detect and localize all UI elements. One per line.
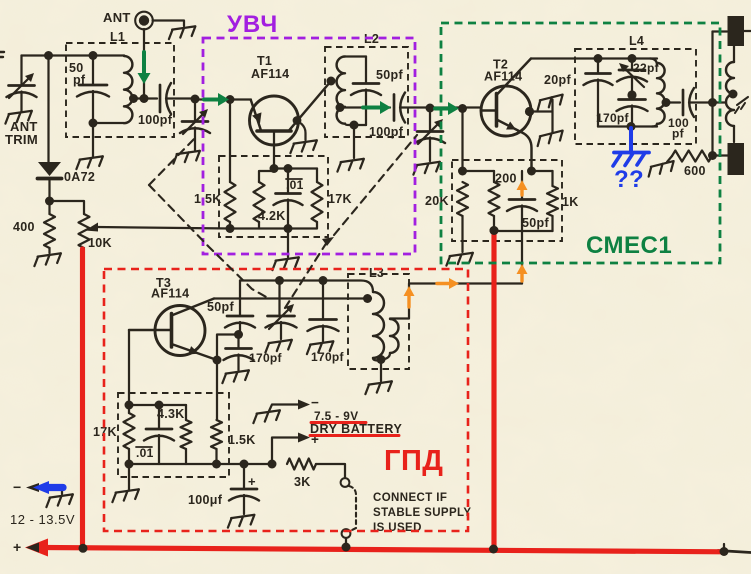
svg-text:STABLE SUPPLY: STABLE SUPPLY	[373, 507, 472, 519]
label plus terminal	[13, 539, 21, 555]
svg-text:20K: 20K	[425, 194, 449, 208]
label question marks blue	[614, 166, 644, 193]
orange arrow injection 2	[437, 278, 459, 289]
label UVCH	[227, 11, 278, 38]
wire L1 tap to coupling cap	[134, 97, 158, 99]
inductor L1 coil	[124, 56, 132, 124]
T1 labels	[251, 54, 289, 81]
svg-text:400: 400	[13, 220, 35, 234]
svg-text:+: +	[248, 474, 256, 489]
capacitor 50pf in L1	[77, 56, 109, 124]
node tank 170pf top	[319, 276, 328, 285]
blue arrow minus supply	[33, 481, 63, 494]
T2 labels	[484, 58, 522, 84]
svg-text:ANT: ANT	[103, 10, 131, 25]
blue wire L4 bottom	[629, 128, 633, 153]
node rail 600 junction	[708, 151, 717, 160]
orange arrow injection 1	[404, 286, 415, 307]
black arrow plus placeholder	[0, 0, 1, 1]
switch terminal upper	[341, 478, 350, 487]
svg-text:12 - 13.5V: 12 - 13.5V	[10, 512, 75, 527]
L4 label	[629, 34, 644, 48]
L1 label	[110, 30, 125, 44]
wire base junction down to 20K	[461, 109, 463, 172]
T2 base lead	[481, 109, 497, 111]
dashed box T1 bias	[219, 156, 328, 237]
wire injection path	[390, 284, 522, 319]
capacitor 50pf L2	[351, 57, 381, 126]
ANT TRIM label	[5, 119, 38, 147]
node L2 tap	[336, 103, 345, 112]
antenna connector J1	[135, 12, 153, 30]
resistor 1K	[551, 171, 553, 186]
ground below L2	[336, 159, 365, 172]
node bias2 bottom-left	[125, 460, 134, 469]
wire L2 bottom rail	[345, 124, 366, 126]
resistor 17K T1	[316, 169, 318, 183]
ground minus entry	[45, 494, 74, 507]
wire L1 bottom rail	[93, 122, 124, 124]
svg-text:170pf: 170pf	[311, 350, 345, 364]
wire rail to IF top	[713, 30, 728, 32]
T3 base lead	[129, 329, 172, 331]
transistor T3 circle	[155, 306, 205, 356]
wire diode branch	[47, 56, 49, 163]
ground T2 shield lower	[535, 131, 564, 147]
wire tank top rail	[240, 281, 373, 293]
wire base rail	[274, 167, 317, 169]
wire IF top out	[744, 30, 751, 32]
ground below L3	[364, 381, 393, 394]
node divider tap	[234, 330, 243, 339]
wire bias to ground	[287, 229, 289, 258]
label GPD	[384, 445, 443, 477]
wire switch to bottom rail	[345, 538, 347, 546]
dashed switch link	[349, 486, 356, 531]
node bottom rail left	[79, 544, 88, 553]
svg-text:100μf: 100μf	[188, 493, 223, 507]
T2 collector lead	[497, 59, 532, 96]
T1 base bar	[257, 129, 291, 133]
ground below 20K	[445, 253, 474, 266]
wire 1.5K bottom	[229, 222, 231, 229]
ground below 170pf tank	[306, 341, 335, 354]
T3 emitter lead with arrow	[172, 344, 218, 360]
svg-text:50pf: 50pf	[522, 216, 549, 230]
svg-text:3K: 3K	[294, 475, 311, 489]
node 22pf-170pf junction	[627, 90, 636, 99]
svg-text:L4: L4	[629, 34, 644, 48]
svg-text:DRY BATTERY: DRY BATTERY	[310, 422, 402, 436]
resistor 200	[493, 171, 495, 182]
node 20pf branch top	[594, 54, 603, 63]
red power line vertical right	[491, 231, 496, 550]
wire L4 bottom rail	[598, 125, 657, 127]
T1 shield lead to ground	[293, 116, 302, 125]
ground below L1	[75, 156, 104, 169]
T3 labels	[151, 276, 189, 301]
T1 base lead down	[273, 132, 275, 169]
IF transformer core bar bottom	[728, 143, 745, 175]
svg-text:AF114: AF114	[484, 70, 522, 84]
label 7.5-9V	[314, 409, 359, 423]
inductor L3 primary	[373, 292, 384, 361]
junction 50pf branch	[89, 51, 98, 60]
wire rail to IF bottom	[713, 154, 728, 156]
wire 20K to ground	[461, 216, 463, 252]
node T1 base rail	[270, 164, 279, 173]
wire top-left rail	[22, 54, 125, 56]
svg-text:7.5 - 9V: 7.5 - 9V	[314, 409, 359, 423]
ANT label	[103, 10, 131, 25]
svg-text:AF114: AF114	[151, 287, 189, 301]
T2 shield lead	[525, 107, 534, 116]
node bottom rail right	[720, 547, 729, 556]
gang link dashes upper right	[334, 135, 417, 235]
wire battery plus arrow	[272, 433, 310, 465]
ground left of 600	[646, 156, 675, 177]
ground battery minus	[252, 410, 281, 423]
node 22pf branch top	[628, 54, 637, 63]
T3 collector lead	[172, 299, 215, 316]
wire 17K to ground	[128, 464, 130, 489]
wire connector to ground	[153, 21, 184, 27]
wire L2 top	[345, 55, 366, 57]
ground T1 bias	[271, 257, 300, 270]
junction antenna tap	[140, 94, 149, 103]
ground below 17K osc	[111, 489, 140, 502]
IF transformer core bar top	[728, 16, 745, 46]
transistor T2 circle	[481, 86, 531, 136]
node L1 bottom	[89, 119, 98, 128]
ground below gang C1c	[264, 340, 293, 353]
svg-text:17K: 17K	[328, 192, 352, 206]
node 20K top	[458, 167, 467, 176]
ground below ANT TRIM	[4, 111, 33, 124]
resistor 3K	[287, 459, 316, 470]
node L4 bottom	[627, 122, 636, 131]
ground below 100uf	[227, 515, 256, 528]
red power line bottom	[44, 548, 725, 552]
red underline DRY BATTERY	[310, 434, 399, 437]
resistor 4.2K	[259, 171, 274, 182]
wire right rail	[711, 32, 713, 157]
node T3 emitter	[213, 356, 222, 365]
svg-text:.01: .01	[136, 446, 154, 460]
svg-text:УВЧ: УВЧ	[227, 11, 278, 38]
svg-text:170pf: 170pf	[596, 111, 630, 125]
svg-text:10K: 10K	[88, 236, 112, 250]
capacitor ANT TRIM (variable)	[7, 56, 37, 112]
capacitor 22pf variable	[617, 59, 647, 96]
capacitor 170pf tank	[308, 281, 339, 342]
svg-text:50pf: 50pf	[376, 68, 403, 82]
svg-text:4.3K: 4.3K	[157, 407, 185, 421]
capacitor 170pf osc lower	[224, 335, 254, 371]
ground below gang C1b	[412, 162, 441, 175]
green arrow L2 tap	[363, 101, 391, 114]
capacitor .01 T1	[274, 169, 303, 229]
node L3 bottoms	[377, 355, 386, 364]
node red supply tap	[490, 226, 499, 235]
svg-text:1.5K: 1.5K	[228, 433, 256, 447]
dashed box L2	[325, 47, 408, 137]
resistor 4.3K	[185, 405, 187, 420]
gang link dashes left	[149, 136, 197, 185]
capacitor variable gang C1a	[180, 99, 210, 150]
svg-text:50pf: 50pf	[207, 300, 234, 314]
capacitor .01 osc	[144, 405, 174, 464]
red underline 7.5-9V	[311, 421, 366, 424]
svg-text:??: ??	[614, 166, 644, 193]
svg-text:AF114: AF114	[251, 67, 289, 81]
ground T1 shield	[289, 140, 318, 153]
svg-text:ГПД: ГПД	[384, 445, 443, 477]
orange arrow injection 4	[517, 180, 528, 195]
blue ground L4	[613, 153, 649, 167]
resistor 17K osc	[124, 413, 135, 449]
inductor L2 coil	[337, 57, 345, 124]
svg-text:pf: pf	[73, 73, 86, 87]
diode OA72	[38, 162, 62, 201]
wire battery minus arrow	[269, 400, 310, 412]
resistor 1.5K osc	[211, 420, 222, 449]
T3 base bar	[170, 314, 174, 348]
wire L1 bottom to ground	[92, 123, 94, 156]
node IF coil tap	[729, 90, 738, 99]
IF trimmer mark	[735, 97, 748, 113]
node bottom rail mixer	[489, 545, 498, 554]
label 12-13.5V	[10, 512, 75, 527]
capacitor variable gang C1c	[266, 281, 297, 340]
resistor 600	[672, 151, 712, 162]
capacitor 50pf emitter	[507, 171, 537, 231]
capacitor 50pf osc	[225, 316, 255, 335]
node T1 input	[191, 95, 200, 104]
svg-text:L1: L1	[110, 30, 125, 44]
capacitor 100pf coupling L1	[160, 83, 195, 114]
svg-text:pf: pf	[672, 127, 685, 141]
inductor L3 secondary	[382, 319, 399, 360]
capacitor 170pf L4	[617, 95, 648, 127]
node bias bypass bottom	[284, 224, 293, 233]
node L1 tap	[129, 94, 138, 103]
wire 50pf drop	[239, 281, 241, 316]
wire T2 collector rail	[531, 57, 657, 59]
potentiometer 10K	[79, 214, 90, 248]
green arrow into T2	[435, 102, 459, 115]
ground below gang C1a	[172, 151, 201, 164]
node L4 tap	[662, 98, 671, 107]
wire antenna down to L1 tap	[143, 29, 145, 99]
capacitor variable gang C1b	[415, 108, 445, 161]
svg-text:200: 200	[495, 172, 517, 186]
node L3 feedback	[363, 294, 372, 303]
gang link dashes to oscillator	[149, 185, 268, 298]
node red supply tap repaint	[490, 226, 499, 235]
label DRY BATTERY	[310, 422, 402, 436]
label minus terminal	[13, 479, 21, 495]
wire L3 to ground	[380, 360, 382, 382]
wire 17K bottom	[128, 405, 130, 464]
svg-text:600: 600	[684, 164, 706, 178]
capacitor 100uf	[229, 464, 259, 514]
node rail mixer out	[708, 98, 717, 107]
dashed box L3	[348, 274, 409, 369]
L2 label	[364, 32, 379, 46]
node emitter top	[527, 167, 536, 176]
dashed box GPD red	[104, 269, 468, 531]
svg-text:100pf: 100pf	[138, 113, 173, 127]
ground below 400	[33, 253, 62, 266]
resistor 400	[48, 201, 50, 214]
wire 400 to ground	[48, 248, 50, 253]
resistor 1.5K T1	[229, 100, 231, 183]
wire emitter net top rail	[463, 170, 553, 172]
wire emitter net bottom rail	[494, 216, 553, 231]
wiper arrow 10K	[85, 223, 230, 232]
svg-text:СМЕС1: СМЕС1	[586, 232, 672, 259]
T1 collector lead to L2	[289, 81, 331, 131]
node L2 bottom	[350, 121, 359, 130]
node bottom rail switch	[342, 543, 351, 552]
capacitor 100pf output	[683, 88, 713, 117]
wire bottom rail black tail	[718, 544, 751, 553]
wire bias bottom rail	[230, 227, 288, 229]
capacitor 20pf	[584, 59, 613, 127]
svg-text:−: −	[311, 395, 319, 410]
node diode bottom	[45, 197, 54, 206]
node bias2 top-left	[125, 401, 134, 410]
gang link dashes oscillator to mixer	[285, 237, 334, 308]
inductor L4 coil	[650, 59, 665, 127]
svg-text:T1: T1	[257, 54, 272, 68]
transistor T1 circle	[250, 96, 299, 145]
svg-text:TRIM: TRIM	[5, 132, 38, 147]
orange arrow injection 3	[517, 264, 528, 281]
T2 base bar	[495, 94, 499, 127]
dashed box SMES1 green	[441, 23, 720, 263]
switch terminal lower	[342, 529, 351, 538]
node bias bottom-left	[226, 224, 235, 233]
wire T3 collector rail	[214, 297, 371, 299]
svg-text:100pf: 100pf	[369, 125, 404, 139]
T1 emitter lead with arrow	[251, 101, 262, 131]
capacitor 100pf coupling L2	[394, 93, 481, 123]
node T2 base junction	[458, 104, 467, 113]
wire 3K to switch	[316, 464, 345, 478]
node .01 top	[155, 401, 164, 410]
dashed box L1	[66, 43, 174, 137]
svg-text:4.2K: 4.2K	[258, 209, 286, 223]
red power line vertical left	[80, 249, 85, 549]
ground T2 shield upper	[535, 95, 564, 111]
green arrow into T1	[204, 93, 229, 106]
wire T3 base down	[128, 330, 130, 405]
wire injection up from bottom	[521, 231, 523, 284]
node T1 emitter junction	[226, 95, 235, 104]
resistor 20K	[457, 182, 468, 216]
svg-text:1K: 1K	[562, 195, 579, 209]
svg-text:CONNECT IF: CONNECT IF	[373, 492, 447, 504]
dashed box T3 bias	[118, 393, 229, 477]
wire diode to 10K	[50, 201, 85, 214]
green arrow antenna down	[138, 52, 151, 84]
svg-text:.01: .01	[286, 178, 304, 192]
inductor IF coil	[726, 46, 734, 142]
wire input to T1 emitter	[195, 98, 251, 100]
wire L4 tap out	[665, 101, 680, 103]
wire bias2 top rail	[129, 404, 186, 406]
scan edge artifact top-left	[0, 52, 4, 57]
wire rail to IF coil	[713, 101, 727, 103]
L3 label	[369, 266, 384, 280]
label CONNECT IF STABLE SUPPLY IS USED	[373, 492, 472, 534]
dashed box T2 emitter network	[452, 160, 562, 241]
wire bias2 bottom rail	[129, 463, 272, 465]
junction diode branch	[44, 51, 53, 60]
wire L2 tap out	[340, 106, 390, 108]
black arrow plus	[26, 543, 39, 553]
label SMES1	[586, 232, 672, 259]
black arrow minus	[26, 483, 62, 494]
wire L2 bottom to ground	[353, 125, 355, 158]
svg-text:+: +	[13, 539, 21, 555]
svg-text:20pf: 20pf	[544, 73, 571, 87]
svg-text:−: −	[13, 479, 21, 495]
node gang C1b	[426, 104, 435, 113]
T2 emitter lead with arrow	[497, 120, 532, 172]
red arrow plus supply	[25, 539, 48, 557]
node L2 top collector	[327, 77, 336, 86]
node tank varcap top	[275, 276, 284, 285]
wire divider tap to emitter	[217, 335, 239, 421]
ground below 170pf osc	[221, 370, 250, 383]
svg-text:0A72: 0A72	[64, 170, 95, 184]
ground at antenna connector	[168, 26, 197, 39]
svg-text:1.5K: 1.5K	[194, 192, 222, 206]
dashed box UVCH purple	[203, 38, 415, 254]
dashed box L4	[575, 49, 696, 144]
